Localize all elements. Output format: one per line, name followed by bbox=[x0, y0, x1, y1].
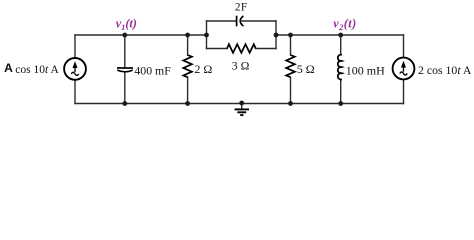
svg-text:A: A bbox=[4, 61, 13, 75]
svg-text:2F: 2F bbox=[235, 2, 247, 14]
svg-text:100 mH: 100 mH bbox=[346, 63, 385, 77]
svg-text:cos 10t A: cos 10t A bbox=[15, 64, 59, 76]
svg-text:3 Ω: 3 Ω bbox=[232, 58, 250, 72]
svg-text:2 Ω: 2 Ω bbox=[194, 62, 212, 76]
svg-text:5 Ω: 5 Ω bbox=[297, 62, 315, 76]
svg-text:v2(t): v2(t) bbox=[333, 17, 356, 32]
svg-text:2 cos 10t A: 2 cos 10t A bbox=[418, 63, 472, 77]
svg-text:400 mF: 400 mF bbox=[134, 64, 171, 78]
svg-text:v1(t): v1(t) bbox=[116, 17, 137, 32]
